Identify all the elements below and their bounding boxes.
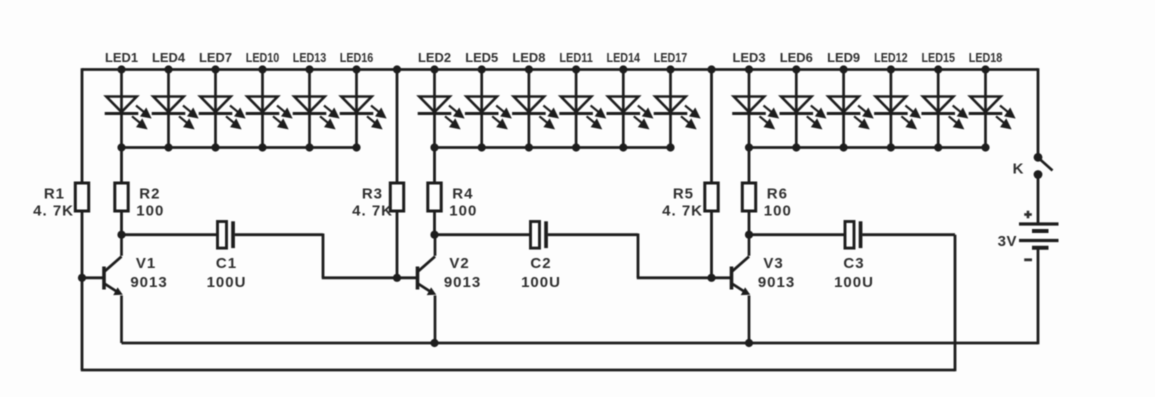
svg-text:LED18: LED18: [969, 51, 1003, 65]
svg-text:R2: R2: [139, 186, 160, 203]
svg-text:LED8: LED8: [512, 50, 545, 65]
LED LED14: [607, 70, 652, 148]
capacitor C3: [845, 221, 862, 248]
transistor V1 (NPN 9013): [104, 235, 123, 343]
capacitor C1: [218, 221, 235, 248]
svg-text:LED17: LED17: [654, 51, 688, 65]
svg-text:V3: V3: [763, 255, 783, 272]
junction: LED10 cathode on group rail: [258, 143, 266, 151]
wire: R4 top lead: [433, 148, 436, 184]
LED LED16: [340, 70, 385, 148]
junction: LED17 cathode on group rail: [666, 143, 674, 151]
junction: LED5 anode on V+ rail: [478, 65, 486, 73]
svg-text:LED9: LED9: [827, 50, 860, 65]
junction: LED14 anode on V+ rail: [619, 65, 627, 73]
svg-text:K: K: [1013, 161, 1024, 178]
junction: V2 base / R3 node: [393, 274, 401, 282]
wire: R6 bottom lead: [748, 211, 751, 235]
wire: coupling drop to next base: [637, 234, 640, 278]
junction: LED8 cathode on group rail: [525, 143, 533, 151]
LED LED11: [559, 70, 604, 148]
junction: LED2 anode on V+ rail: [430, 65, 438, 73]
junction: V3 base / R5 node: [707, 274, 715, 282]
junction: LED16 anode on V+ rail: [352, 65, 360, 73]
wire: collector node to capacitor: [749, 233, 845, 236]
svg-text:R3: R3: [362, 186, 383, 203]
svg-text:LED1: LED1: [105, 50, 138, 65]
LED LED5: [465, 70, 510, 148]
junction: LED10 anode on V+ rail: [258, 65, 266, 73]
junction: R5 top on V+ rail: [707, 65, 715, 73]
svg-text:100: 100: [136, 203, 164, 220]
junction: LED12 cathode on group rail: [887, 143, 895, 151]
svg-text:LED15: LED15: [921, 51, 955, 65]
LED LED18: [969, 70, 1014, 148]
resistor R5: [705, 183, 718, 211]
svg-text:3V: 3V: [998, 233, 1017, 250]
wire: R6 top lead: [748, 148, 751, 184]
junction: LED18 cathode on group rail: [981, 143, 989, 151]
junction: LED13 cathode on group rail: [305, 143, 313, 151]
wire: coupling drop to next base: [322, 234, 325, 278]
wire: capacitor output right: [862, 233, 955, 236]
LED LED13: [293, 70, 338, 148]
svg-text:LED2: LED2: [418, 50, 451, 65]
svg-text:LED16: LED16: [340, 51, 374, 65]
LED LED15: [921, 70, 966, 148]
wire: R2 bottom lead: [120, 211, 123, 235]
junction: LED12 anode on V+ rail: [887, 65, 895, 73]
LED LED2: [418, 70, 463, 148]
svg-text:4. 7K: 4. 7K: [33, 203, 74, 220]
junction: LED1 cathode on group rail: [117, 143, 125, 151]
transistor V2 (NPN 9013): [417, 235, 436, 343]
resistor R4: [428, 183, 441, 211]
svg-text:4. 7K: 4. 7K: [662, 203, 703, 220]
wire: top V+ rail: [82, 68, 1038, 71]
wire: bottom feedback rail (C3 output to V1 base): [81, 369, 955, 372]
svg-text:R4: R4: [452, 186, 473, 203]
svg-text:9013: 9013: [758, 274, 795, 291]
junction: V1 base node: [78, 274, 86, 282]
svg-text:LED13: LED13: [293, 51, 327, 65]
svg-text:LED10: LED10: [246, 51, 280, 65]
svg-text:V2: V2: [449, 255, 469, 272]
junction: V2 emitter on ground rail: [430, 339, 438, 347]
svg-text:R1: R1: [44, 186, 65, 203]
svg-text:4. 7K: 4. 7K: [352, 203, 393, 220]
wire: capacitor output right: [548, 233, 638, 236]
wire: V1 base wire from feedback node: [82, 276, 104, 279]
wire: R5 top lead: [710, 70, 713, 184]
transistor V3 (NPN 9013): [731, 235, 750, 343]
svg-text:LED4: LED4: [152, 50, 186, 65]
svg-text:100U: 100U: [834, 274, 874, 291]
junction: LED18 anode on V+ rail: [981, 65, 989, 73]
wire: collector node to capacitor: [435, 233, 531, 236]
svg-text:100U: 100U: [521, 274, 561, 291]
wire: switch K to battery positive: [1037, 175, 1040, 224]
wire: R4 bottom lead: [433, 211, 436, 235]
battery 3V: [1019, 224, 1059, 248]
wire: LED group 1 cathode rail: [122, 146, 357, 149]
junction: LED13 anode on V+ rail: [305, 65, 313, 73]
junction: LED14 cathode on group rail: [619, 143, 627, 151]
resistor R1: [75, 183, 88, 211]
junction: LED6 cathode on group rail: [792, 143, 800, 151]
junction: LED15 cathode on group rail: [934, 143, 942, 151]
wire: capacitor output right: [235, 233, 323, 236]
resistor R3: [390, 183, 403, 211]
svg-text:100: 100: [764, 203, 792, 220]
junction: LED2 cathode on group rail: [430, 143, 438, 151]
wire: R5 bottom lead: [710, 211, 713, 278]
wire: LED group 3 cathode rail: [749, 146, 986, 149]
svg-text:LED6: LED6: [780, 50, 813, 65]
junction: LED3 cathode on group rail: [745, 143, 753, 151]
junction: LED4 cathode on group rail: [164, 143, 172, 151]
LED LED12: [874, 70, 919, 148]
LED LED4: [152, 70, 197, 148]
junction: LED16 cathode on group rail: [352, 143, 360, 151]
junction: LED4 anode on V+ rail: [164, 65, 172, 73]
svg-text:LED11: LED11: [559, 51, 593, 65]
wire: R2 top lead: [120, 148, 123, 184]
svg-text:100: 100: [449, 203, 477, 220]
junction: LED8 anode on V+ rail: [525, 65, 533, 73]
junction: V3 emitter on ground rail: [745, 339, 753, 347]
label battery plus: [1024, 211, 1032, 219]
junction: V2 collector node: [430, 231, 438, 239]
wire: R3 top lead: [396, 70, 399, 184]
junction: LED9 cathode on group rail: [840, 143, 848, 151]
junction: LED17 anode on V+ rail: [666, 65, 674, 73]
wire: base feed wire: [637, 276, 732, 279]
svg-text:C1: C1: [216, 255, 237, 272]
svg-text:LED7: LED7: [199, 50, 232, 65]
svg-text:9013: 9013: [130, 274, 167, 291]
wire: left drop from V+ rail to R1: [81, 68, 84, 183]
resistor R6: [742, 183, 755, 211]
LED LED8: [512, 70, 557, 148]
svg-text:R5: R5: [673, 186, 694, 203]
wire: collector node to capacitor: [122, 233, 218, 236]
svg-text:LED3: LED3: [733, 50, 766, 65]
svg-text:V1: V1: [136, 255, 156, 272]
junction: V1 collector node: [117, 231, 125, 239]
wire: emitter/ground rail: [122, 342, 1039, 345]
svg-text:R6: R6: [767, 186, 788, 203]
wire: R3 bottom lead: [396, 211, 399, 278]
junction: LED5 cathode on group rail: [478, 143, 486, 151]
svg-text:C2: C2: [530, 255, 551, 272]
svg-text:9013: 9013: [444, 274, 481, 291]
switch K: [1034, 153, 1053, 179]
LED LED3: [732, 70, 777, 148]
wire: C3 output drop to bottom rail: [954, 235, 957, 372]
label battery minus: [1024, 258, 1032, 261]
capacitor C2: [531, 221, 548, 248]
junction: LED3 anode on V+ rail: [745, 65, 753, 73]
junction: LED9 anode on V+ rail: [840, 65, 848, 73]
wire: V+ rail down to switch K: [1037, 68, 1040, 157]
svg-text:LED14: LED14: [607, 51, 641, 65]
junction: LED11 anode on V+ rail: [572, 65, 580, 73]
svg-text:LED5: LED5: [465, 50, 498, 65]
wire: base feed wire: [322, 276, 418, 279]
junction: V3 collector node: [745, 231, 753, 239]
junction: LED7 anode on V+ rail: [211, 65, 219, 73]
LED LED10: [246, 70, 291, 148]
wire: battery negative to emitter rail: [1037, 249, 1040, 344]
LED LED7: [199, 70, 244, 148]
junction: LED15 anode on V+ rail: [934, 65, 942, 73]
LED LED9: [827, 70, 872, 148]
junction: R3 top on V+ rail: [393, 65, 401, 73]
LED LED17: [654, 70, 699, 148]
LED LED1: [105, 70, 150, 148]
wire: R1 bottom lead down to V1 base node and bottom feedback rail: [81, 211, 84, 370]
svg-text:LED12: LED12: [874, 51, 908, 65]
junction: LED7 cathode on group rail: [211, 143, 219, 151]
wire: LED group 2 cathode rail: [435, 146, 671, 149]
svg-text:C3: C3: [843, 255, 864, 272]
junction: LED1 anode on V+ rail: [117, 65, 125, 73]
junction: LED11 cathode on group rail: [572, 143, 580, 151]
LED LED6: [780, 70, 825, 148]
junction: LED6 anode on V+ rail: [792, 65, 800, 73]
svg-text:100U: 100U: [207, 274, 247, 291]
resistor R2: [115, 183, 128, 211]
